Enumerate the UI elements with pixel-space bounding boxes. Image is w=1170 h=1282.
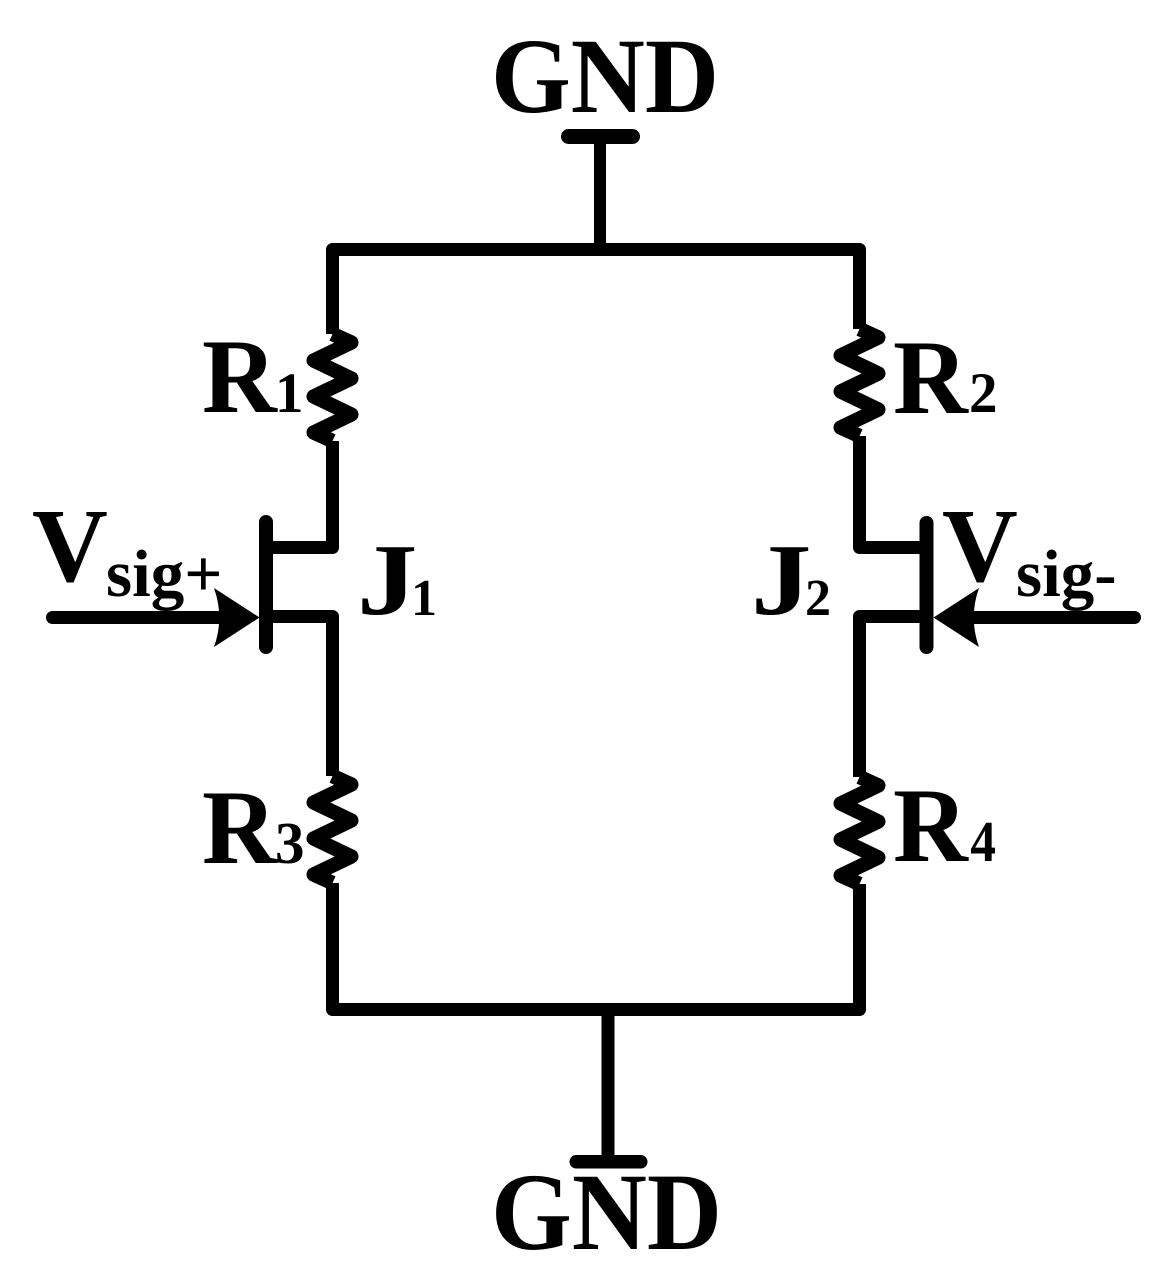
- wire R1 to J1 drain: [266, 441, 333, 548]
- wire R2 to J2 drain: [860, 436, 927, 548]
- svg-text:4: 4: [970, 809, 996, 874]
- ground symbol (bottom): [570, 1155, 648, 1169]
- svg-text:R: R: [893, 319, 969, 436]
- svg-text:V: V: [32, 487, 108, 604]
- transistor J2 source lead: [860, 617, 927, 778]
- wire top rail: [333, 250, 860, 335]
- svg-text:1: 1: [275, 362, 304, 425]
- svg-text:3: 3: [275, 810, 305, 876]
- wire top ground stub: [594, 140, 606, 250]
- svg-text:2: 2: [805, 570, 831, 627]
- svg-text:V: V: [942, 487, 1018, 604]
- ground symbol (top): [561, 129, 640, 144]
- svg-text:R: R: [893, 767, 969, 884]
- resistor R3: [314, 776, 352, 883]
- svg-text:J: J: [357, 524, 418, 637]
- wire bottom rail: [333, 883, 860, 1010]
- wire gate lead J1: [53, 611, 239, 624]
- svg-text:1: 1: [411, 570, 437, 627]
- arrowhead into J1 gate: [214, 588, 260, 647]
- wire gate lead J2: [955, 611, 1135, 624]
- transistor J1 gate bar: [259, 522, 273, 647]
- svg-text:sig+: sig+: [106, 537, 222, 611]
- wire bottom ground stub: [602, 1010, 615, 1160]
- svg-text:R: R: [202, 769, 278, 886]
- resistor R1: [314, 334, 352, 441]
- resistor R2: [841, 329, 879, 436]
- svg-text:sig-: sig-: [1016, 537, 1117, 611]
- resistor R4: [841, 777, 879, 884]
- transistor J1 source lead: [266, 617, 333, 777]
- transistor J2 gate bar: [920, 523, 934, 647]
- svg-text:R: R: [202, 318, 278, 435]
- arrowhead into J2 gate: [934, 588, 980, 647]
- svg-text:2: 2: [969, 362, 998, 425]
- svg-text:GND: GND: [491, 18, 719, 136]
- svg-text:GND: GND: [491, 1151, 722, 1273]
- svg-text:J: J: [751, 524, 812, 637]
